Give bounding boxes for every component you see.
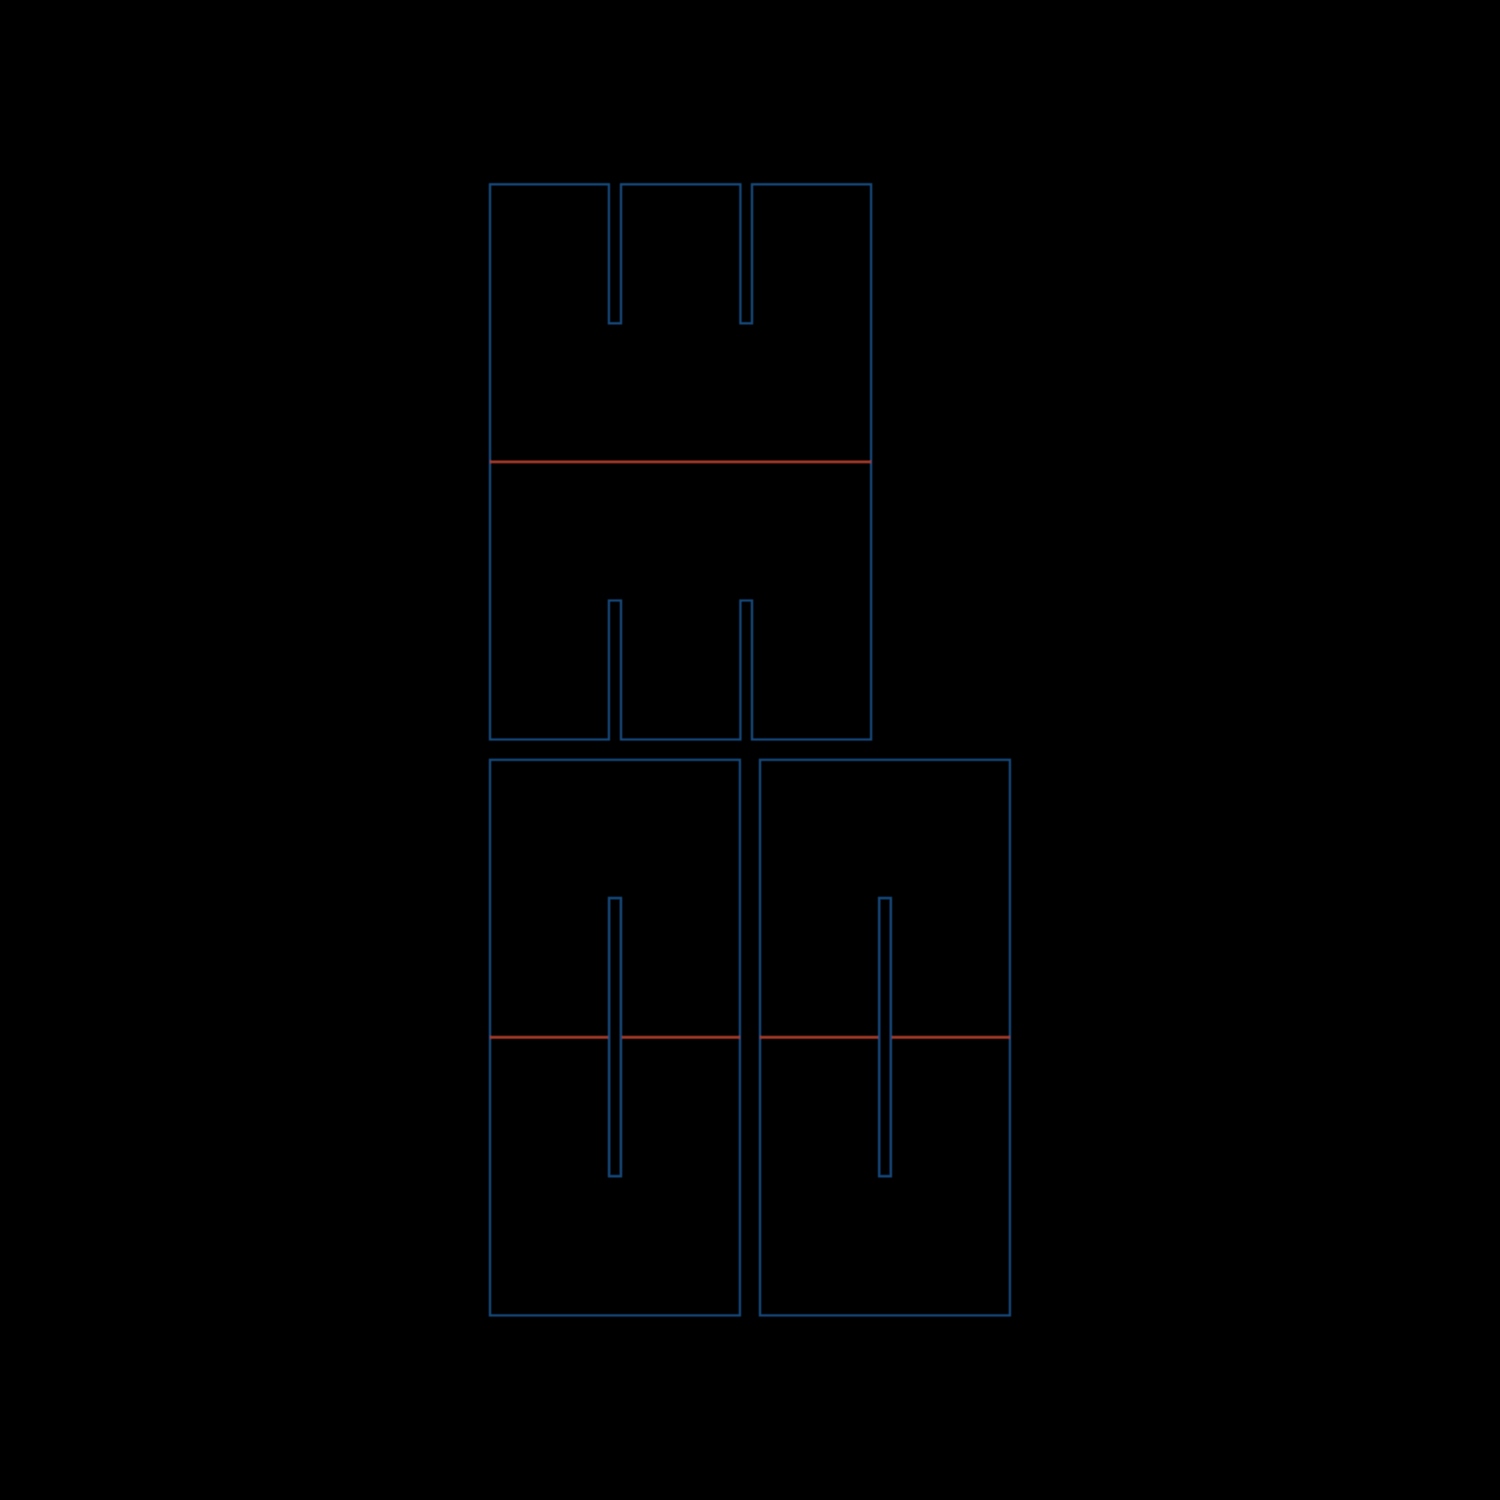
panel P1 outline with two top slots and two bottom slots	[490, 184, 871, 739]
panel P2 centre slit (covers fold line)	[609, 898, 621, 1176]
fold line F1 across panel P1	[490, 460, 871, 463]
panel P2 outline	[490, 760, 740, 1316]
panel P3 centre slit (covers fold line)	[879, 898, 891, 1176]
panel P3 outline	[760, 760, 1010, 1316]
fold line F2 across panel P2	[490, 1036, 740, 1039]
fold line F3 across panel P3	[760, 1036, 1010, 1039]
